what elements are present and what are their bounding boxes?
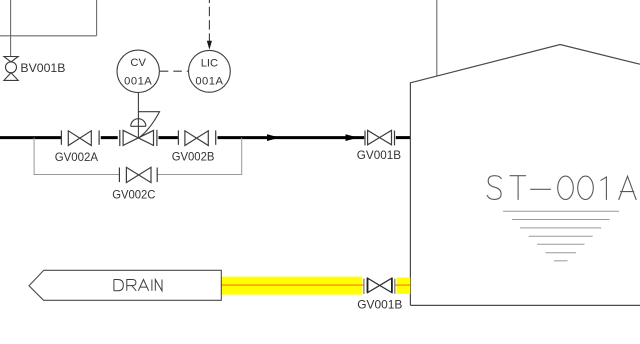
signal wire: dashed CV001A to LIC001A [160, 70, 189, 72]
actuator diaphragm dome [131, 119, 146, 127]
valve GV001B (drain) [364, 278, 395, 294]
wire: drain pipe line [221, 284, 364, 286]
svg-text:LIC: LIC [201, 58, 218, 70]
wire: bypass line [34, 138, 242, 175]
svg-text:GV002A: GV002A [55, 150, 99, 164]
wire: main process pipe (heavy) [0, 136, 411, 139]
svg-text:GV002C: GV002C [112, 188, 155, 202]
svg-text:CV: CV [130, 57, 146, 69]
instrument CV001A [117, 50, 159, 92]
svg-text:GV001B: GV001B [357, 297, 402, 311]
svg-text:BV001B: BV001B [20, 61, 65, 75]
valve GV002B [178, 130, 215, 145]
svg-text:GV001B: GV001B [357, 148, 401, 162]
label DRAIN (thin CAD lettering) [114, 280, 162, 291]
valve GV002C [119, 167, 157, 182]
tank liquid level marks [503, 211, 619, 261]
actuator flag [138, 112, 159, 138]
svg-text:GV002B: GV002B [172, 150, 215, 164]
drain flag DRAIN [29, 270, 221, 300]
tank ST-001A outline [410, 45, 640, 306]
wire: drain pipe yellow highlight [221, 277, 362, 295]
wire: vertical pipe from box down to BV001B [10, 0, 12, 57]
control valve body [120, 130, 157, 146]
valve GV002A [61, 130, 99, 145]
label ST-001A (thin CAD lettering) [487, 176, 636, 200]
wire: vent pipe onto tank roof [436, 0, 438, 76]
equipment box (top-left, partial) [0, 0, 97, 36]
wire: actuator stem from CV001A [137, 93, 139, 139]
signal wire: dashed drop into LIC001A [208, 0, 210, 41]
flow arrow 1 [267, 134, 280, 141]
valve GV001B (top) [365, 130, 395, 145]
svg-text:001A: 001A [124, 75, 152, 87]
svg-text:001A: 001A [195, 75, 223, 87]
instrument LIC001A [189, 50, 231, 92]
flow arrow 2 [346, 134, 359, 141]
valve BV001B (ball valve, vertical) [4, 57, 18, 81]
